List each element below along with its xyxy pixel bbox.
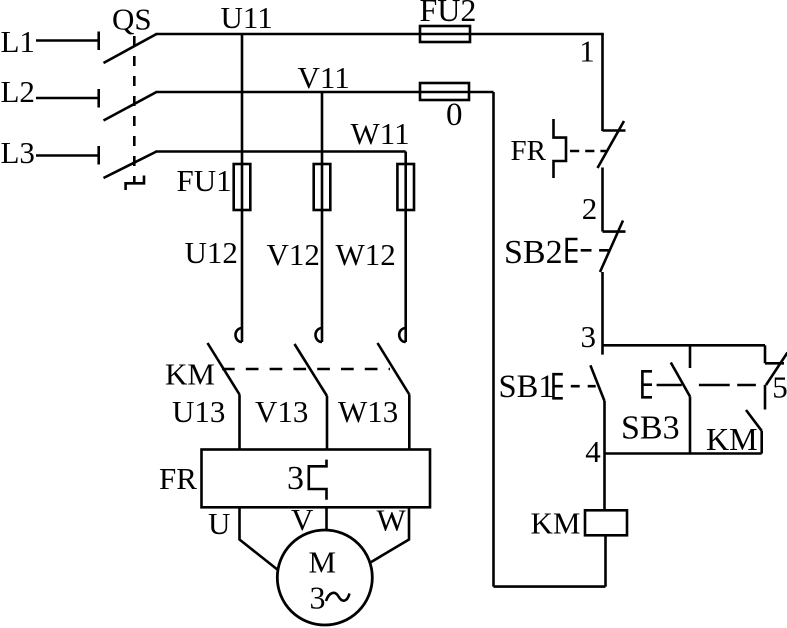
- svg-text:4: 4: [585, 434, 601, 469]
- wire W13: [408, 395, 411, 450]
- wire W12 column: [404, 152, 407, 343]
- svg-text:SB1: SB1: [499, 369, 555, 405]
- relay FR trip symbol: [554, 119, 567, 178]
- wire SB3 branch top: [689, 345, 692, 368]
- svg-text:U11: U11: [221, 0, 273, 35]
- terminal tick L1: [97, 32, 100, 51]
- svg-text:W12: W12: [336, 237, 396, 272]
- wire V13: [326, 396, 329, 450]
- svg-text:FU1: FU1: [177, 163, 232, 198]
- wire L1 lead: [36, 39, 98, 42]
- wire node3 branch: [603, 344, 766, 347]
- terminal tick L2: [97, 89, 100, 108]
- contact SB2 fixed bar: [603, 230, 626, 233]
- svg-text:L2: L2: [1, 74, 35, 109]
- wire left control rail: [492, 92, 495, 587]
- wire KM aux bottom: [760, 431, 763, 454]
- wire SB3 branch bottom: [689, 397, 692, 454]
- svg-text:W: W: [377, 503, 407, 538]
- svg-text:SB3: SB3: [621, 410, 680, 447]
- fuse FU1 U element: [234, 164, 251, 210]
- svg-text:0: 0: [446, 97, 463, 133]
- wire L3 lead: [36, 154, 98, 157]
- svg-text:3: 3: [310, 580, 326, 616]
- wire U13: [238, 395, 241, 450]
- wire KM aux top: [764, 345, 767, 363]
- wire bottom return: [494, 585, 606, 588]
- svg-text:KM: KM: [706, 421, 758, 457]
- fuse FU1 V element: [314, 164, 331, 210]
- svg-text:V13: V13: [255, 394, 308, 429]
- svg-text:QS: QS: [112, 2, 152, 37]
- button SB3 / KM link (dashed): [657, 384, 756, 387]
- contact FR fixed bar: [603, 129, 626, 132]
- contact FR blade: [598, 121, 625, 168]
- wire node4 branch: [605, 452, 762, 455]
- svg-text:L1: L1: [1, 24, 35, 59]
- svg-text:W11: W11: [351, 116, 410, 151]
- svg-text:U: U: [208, 506, 230, 541]
- svg-text:KM: KM: [531, 506, 581, 541]
- contact KM aux fixed bar: [765, 362, 784, 365]
- wire U11 bus: [156, 33, 604, 36]
- wire L2 lead: [36, 97, 98, 100]
- contact KM V fixed hook: [316, 328, 323, 342]
- wire W11 bus: [156, 150, 406, 153]
- wire motor W lead: [371, 507, 409, 562]
- relay FR heater box: [202, 450, 431, 508]
- svg-text:M: M: [309, 544, 337, 579]
- contact KM V blade: [295, 344, 328, 396]
- terminal tick L3: [97, 146, 100, 165]
- relay FR link (dashed): [570, 150, 606, 153]
- wire KM aux mid: [764, 385, 767, 410]
- button SB1 link (dashed): [571, 385, 596, 388]
- button SB2 link (dashed): [581, 249, 609, 252]
- contact KM U fixed hook: [236, 328, 243, 342]
- wire coil bottom: [604, 535, 607, 586]
- wire rail node2-node3: [601, 272, 604, 355]
- wire motor V lead: [325, 507, 328, 530]
- wire U12 column: [241, 34, 244, 342]
- contact KM aux blade: [746, 410, 762, 431]
- svg-text:FR: FR: [159, 461, 197, 496]
- fuse FU2 element 2: [420, 83, 469, 100]
- svg-text:SB2: SB2: [504, 234, 563, 271]
- svg-text:FR: FR: [511, 135, 547, 167]
- contact SB1 blade: [590, 365, 604, 401]
- switch QS linkage (dashed): [133, 36, 136, 183]
- button SB3 actuator: [642, 371, 652, 397]
- wire motor U lead: [240, 507, 279, 570]
- svg-text:U12: U12: [185, 235, 238, 270]
- svg-text:V11: V11: [298, 60, 350, 95]
- svg-text:3: 3: [580, 319, 596, 354]
- wire rail node4 to coil: [603, 401, 606, 510]
- motor M circle: [277, 530, 372, 625]
- contact SB3 blade: [671, 363, 690, 397]
- wire V11 bus: [156, 91, 494, 94]
- button SB1 actuator: [554, 374, 563, 398]
- svg-text:2: 2: [582, 191, 598, 226]
- contact KM W blade: [378, 343, 410, 395]
- wire V12 column: [321, 92, 324, 342]
- svg-text:3: 3: [287, 460, 304, 497]
- svg-text:5: 5: [772, 370, 787, 405]
- svg-text:U13: U13: [172, 394, 225, 429]
- svg-text:KM: KM: [165, 357, 215, 392]
- switch QS blade L1: [104, 34, 157, 63]
- svg-text:L3: L3: [1, 135, 35, 170]
- fuse FU1 W element: [397, 164, 414, 210]
- button SB2 actuator: [567, 239, 578, 262]
- wire rail node1-node2: [601, 168, 604, 232]
- svg-text:W13: W13: [338, 394, 398, 429]
- switch QS handle: [126, 176, 144, 191]
- svg-text:V12: V12: [267, 237, 320, 272]
- wire node1 rail: [601, 34, 604, 131]
- contactor KM linkage (dashed): [222, 368, 390, 371]
- switch QS blade L2: [104, 92, 157, 121]
- contact SB2 blade: [600, 221, 623, 273]
- svg-text:1: 1: [579, 34, 595, 69]
- fuse FU2 element 1: [420, 26, 470, 42]
- svg-text:FU2: FU2: [420, 0, 477, 28]
- coil KM: [585, 510, 627, 535]
- contact KM U blade: [208, 343, 240, 395]
- contact KM W fixed hook: [399, 328, 405, 342]
- switch QS blade L3: [104, 152, 157, 179]
- contact KM aux upper blade: [766, 353, 787, 386]
- relay FR heater element symbol: [309, 460, 327, 500]
